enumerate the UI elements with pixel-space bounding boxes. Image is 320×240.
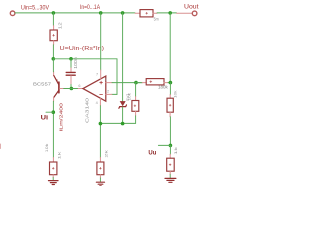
svg-text:U=Uin-(Rs*In): U=Uin-(Rs*In) <box>60 46 105 52</box>
wire cap top <box>70 59 72 68</box>
svg-text:Ui: Ui <box>41 115 49 122</box>
junction Ui <box>52 110 56 114</box>
capacitor C 100n <box>66 71 75 73</box>
wire zener column top <box>122 13 124 101</box>
wire R1 top <box>52 13 54 26</box>
wire plus input <box>112 82 142 84</box>
pin R3 bottom <box>135 111 137 116</box>
pin 4 stub <box>99 98 101 105</box>
svg-text:12: 12 <box>57 21 62 29</box>
svg-text:10k: 10k <box>127 93 131 101</box>
junction node U x53 <box>52 57 56 61</box>
junction rail x53 <box>52 11 56 15</box>
wire pin4 down <box>99 106 101 158</box>
pin R6 top <box>52 157 54 162</box>
wire box2 pin up <box>135 83 137 97</box>
resistor shunt R <box>140 10 153 17</box>
junction plus wire x136 <box>134 81 138 85</box>
pin opamp minus input <box>106 93 112 95</box>
junction base wire <box>70 87 74 91</box>
terminal Uout <box>192 11 197 16</box>
wire rail2 <box>53 58 117 60</box>
svg-text:Uin=5...30V: Uin=5...30V <box>21 4 50 11</box>
svg-text:Uu: Uu <box>148 149 156 156</box>
wire to R5 <box>169 145 171 154</box>
plus marker <box>100 81 103 84</box>
ground right <box>165 177 176 179</box>
left column below transistor <box>52 101 54 157</box>
svg-text:7: 7 <box>96 73 98 77</box>
pin R6 bottom <box>52 175 54 178</box>
right column <box>169 13 171 83</box>
wire top rail right <box>157 12 177 14</box>
pin R1 bottom <box>53 41 55 45</box>
ground left <box>49 180 59 182</box>
svg-text:2k: 2k <box>104 150 108 158</box>
junction right x170 y82 <box>169 81 173 85</box>
resistor R3 <box>132 101 139 112</box>
svg-text:6: 6 <box>78 84 80 88</box>
svg-text:ILm/2400: ILm/2400 <box>59 102 64 131</box>
ground middle <box>96 181 104 183</box>
wire pin shunt right <box>153 12 157 14</box>
svg-text:10k: 10k <box>174 90 178 98</box>
emitter diagonal <box>54 76 59 85</box>
resistor R5 <box>167 158 175 171</box>
svg-text:1k: 1k <box>174 147 178 155</box>
svg-text:4: 4 <box>96 101 98 105</box>
pin Q1 base <box>60 88 64 90</box>
svg-text:2: 2 <box>107 90 109 94</box>
pin R1 top <box>53 26 55 31</box>
wire pin shunt left <box>135 12 140 14</box>
pin R7 bottom <box>99 175 101 178</box>
svg-text:CA3140: CA3140 <box>84 97 89 123</box>
junction rail x170 <box>168 11 172 15</box>
pin Q1 collector <box>53 97 55 101</box>
pin R4 bottom <box>169 112 171 117</box>
wire Ui stub <box>46 111 53 113</box>
junction cap top <box>69 57 73 61</box>
junction Uu <box>169 144 173 148</box>
pin Q1 emitter <box>53 72 55 76</box>
pin R7 top <box>99 157 101 162</box>
resistor R6 <box>50 162 57 175</box>
wire R3 to bus <box>100 116 135 124</box>
wire top rail left <box>15 12 135 14</box>
svg-text:100n: 100n <box>73 57 78 69</box>
svg-text:10k: 10k <box>45 144 49 153</box>
left edge artifact <box>0 144 2 149</box>
junction bus x100 <box>99 122 103 126</box>
wire cap bottom <box>70 85 72 89</box>
op-amp U1 triangle <box>83 76 106 101</box>
wire base to opamp <box>64 88 78 90</box>
wire R1 bottom <box>52 45 54 59</box>
pin opamp plus input <box>106 82 112 84</box>
base bar <box>58 82 60 93</box>
wire Uu stub <box>158 144 170 146</box>
junction rail x122 <box>121 11 125 15</box>
junction bus x122 <box>121 122 125 126</box>
wire feedback down <box>116 59 118 95</box>
svg-text:Uout: Uout <box>184 4 199 11</box>
collector diagonal <box>54 91 59 98</box>
pin cap top <box>70 68 72 72</box>
zener diode D1 <box>120 101 126 106</box>
terminal Uin <box>10 11 15 16</box>
resistor R7 <box>97 162 104 175</box>
svg-text:180k: 180k <box>158 85 168 91</box>
pin R5 bottom <box>169 171 171 174</box>
svg-text:In=0...1A: In=0...1A <box>80 4 101 11</box>
pin 7 stub <box>100 70 102 79</box>
minus marker <box>100 93 103 95</box>
resistor R1 12 <box>50 30 57 41</box>
resistor R4 <box>167 98 173 112</box>
wire to minus pin <box>112 93 117 95</box>
wire opamp V+ from rail <box>100 13 102 70</box>
junction rail x100 <box>99 11 103 15</box>
svg-text:5m: 5m <box>154 17 159 23</box>
emitter arrow <box>56 79 58 83</box>
svg-text:1k: 1k <box>57 152 61 160</box>
feedback resistor R2 <box>136 82 142 84</box>
wire Q1 emitter top <box>52 59 54 72</box>
svg-text:3: 3 <box>105 78 107 82</box>
wire R4 to junction <box>169 117 171 146</box>
wire pin Uout terminal <box>177 12 193 14</box>
svg-text:BC557: BC557 <box>33 81 51 87</box>
pin opamp output <box>78 88 83 90</box>
wire zener bottom <box>122 107 124 123</box>
pin cap bottom <box>70 76 72 85</box>
